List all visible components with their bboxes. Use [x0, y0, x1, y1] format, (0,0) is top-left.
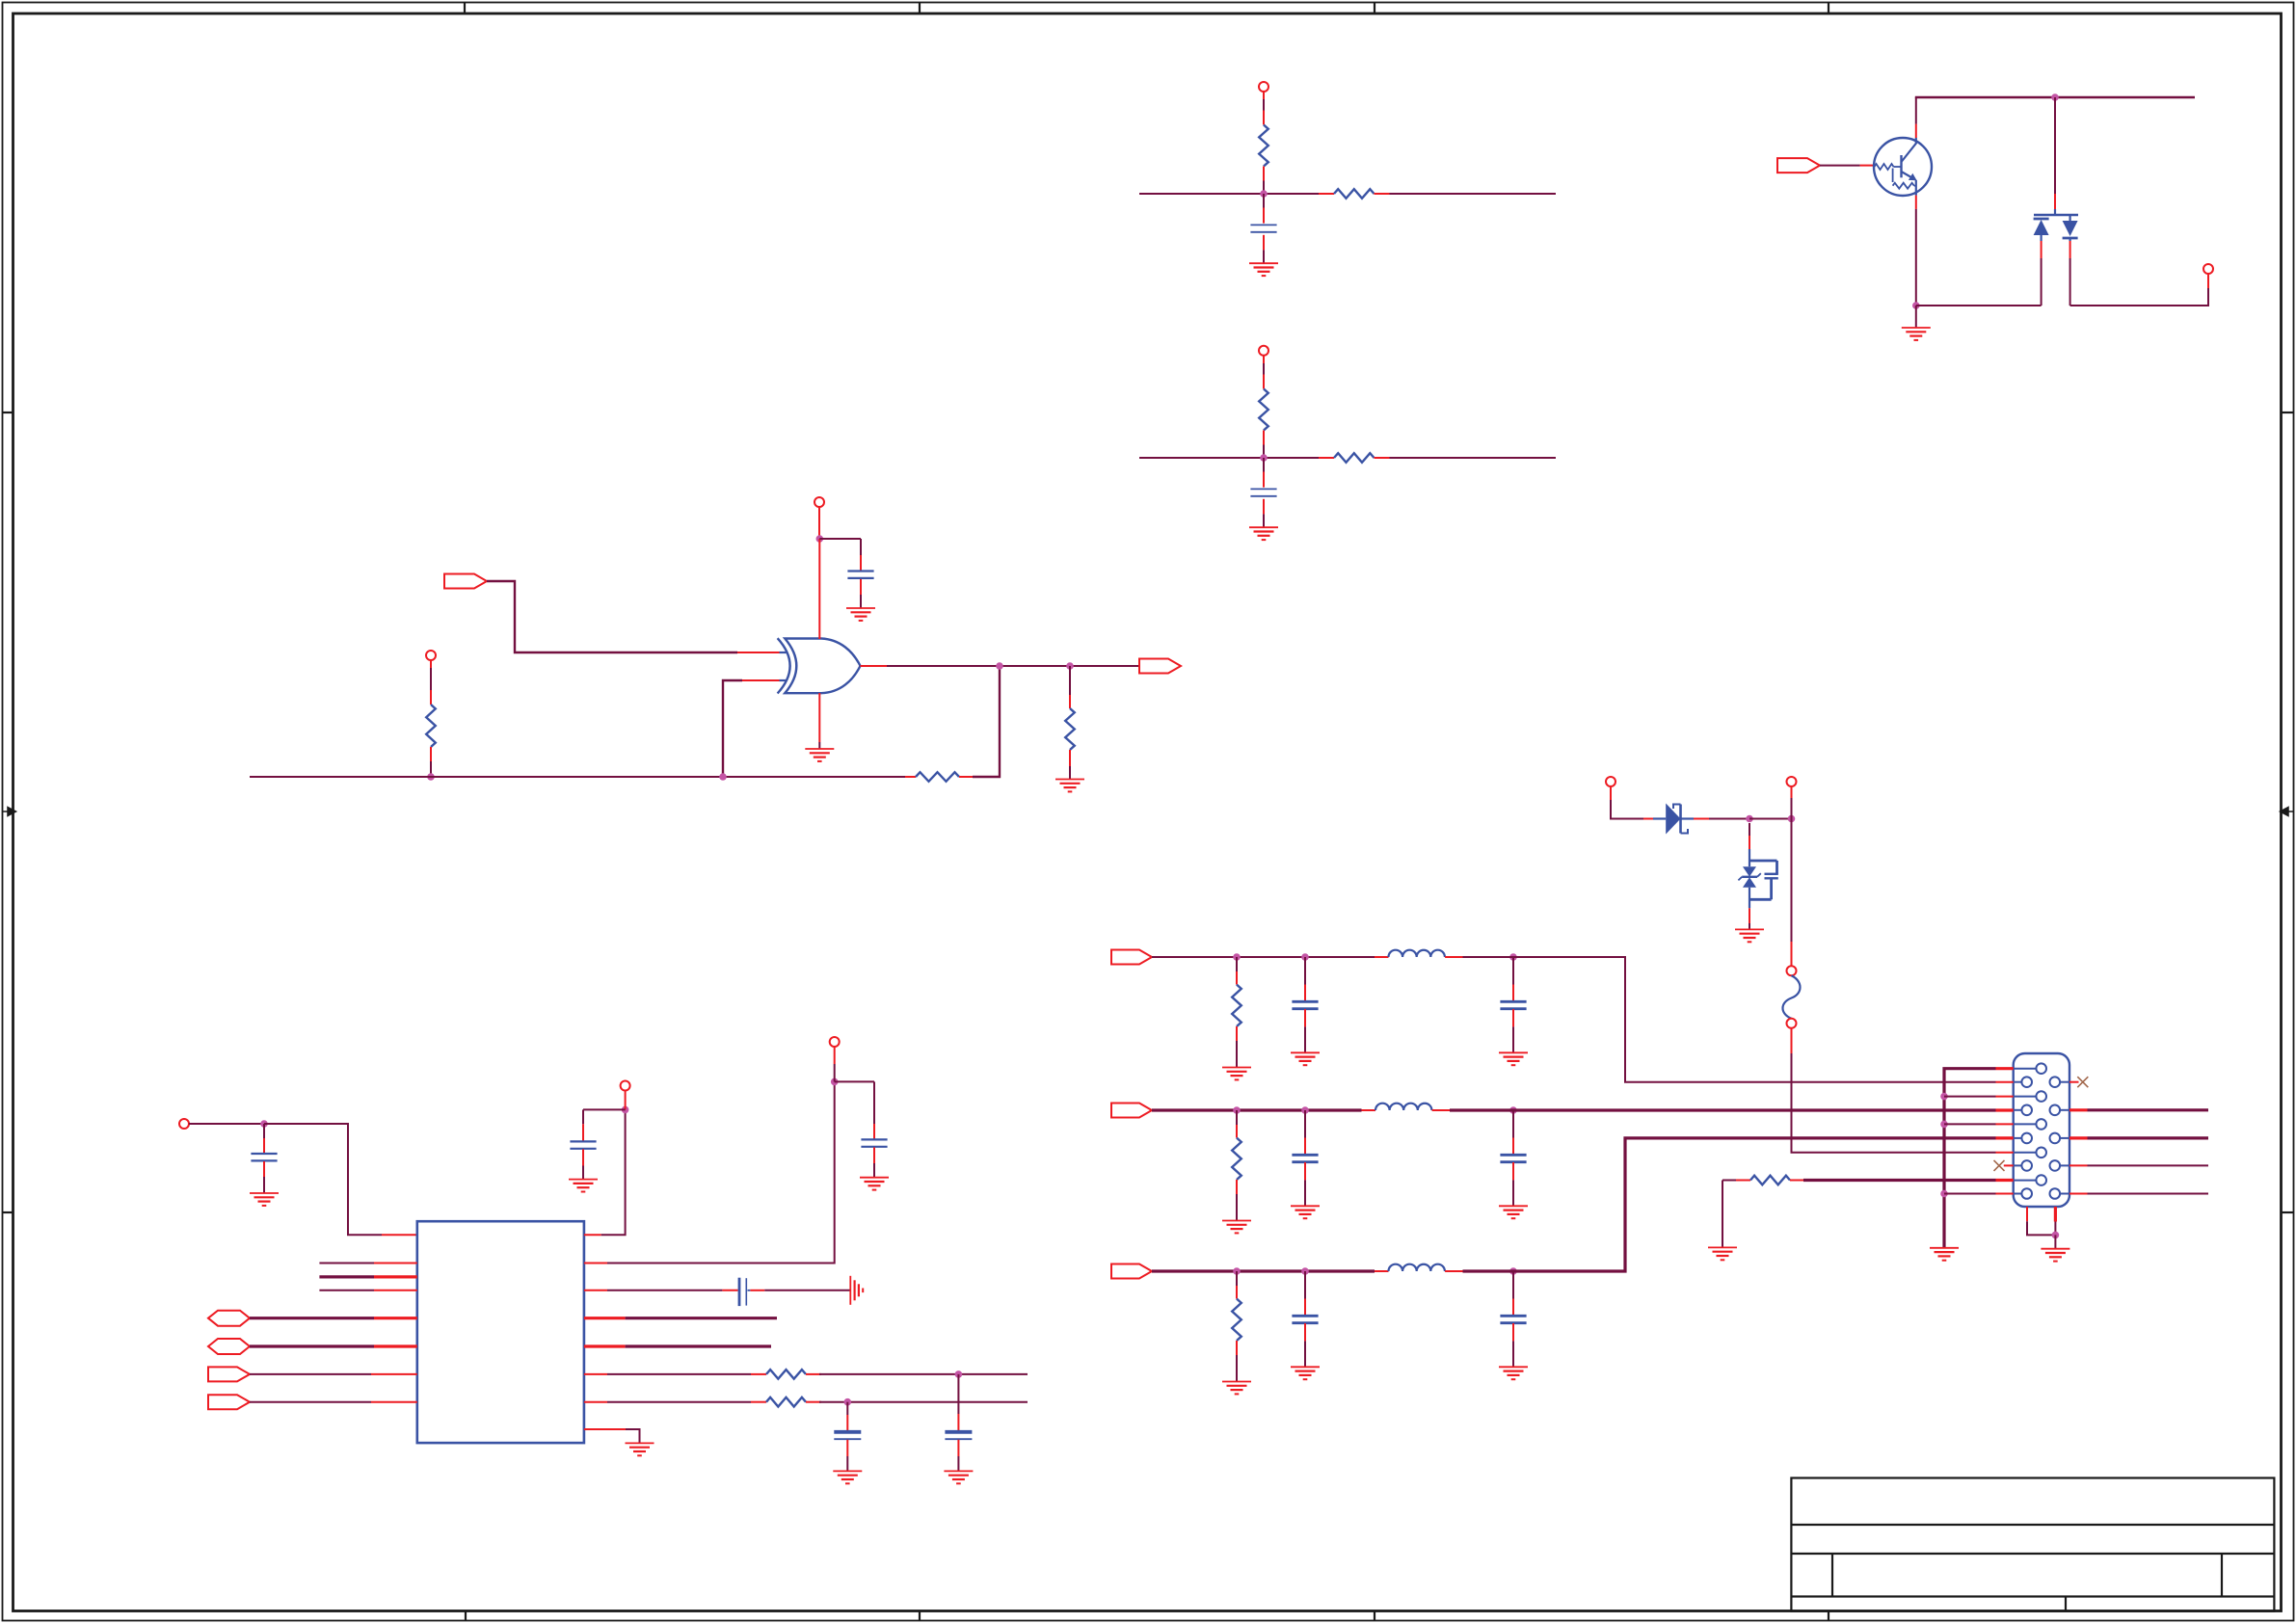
node junction: [719, 773, 727, 781]
port flag row3: [1111, 1264, 1152, 1279]
capacitor C4: [251, 1154, 277, 1160]
pin stub: [1304, 1162, 1306, 1180]
ground: [1735, 929, 1764, 942]
wire: [1236, 957, 1238, 971]
pin stub: [1736, 1180, 1750, 1182]
node junction: [1788, 815, 1796, 823]
pin stub: [1304, 1138, 1306, 1155]
pin stub: [1304, 1009, 1306, 1026]
power port P1: [1259, 82, 1268, 92]
node junction: [955, 1370, 963, 1378]
wire: [1916, 305, 2042, 306]
pin stub: [584, 1234, 601, 1236]
pin stub: [2069, 241, 2071, 258]
wire: [819, 1401, 1028, 1403]
pin stub: [584, 1428, 626, 1430]
pin stub: [1915, 196, 1917, 209]
resistor R9: [766, 1397, 806, 1407]
pin stub: [584, 1401, 607, 1403]
inductor L1: [1389, 950, 1445, 957]
title block: [1791, 1478, 2274, 1611]
wire: [607, 1290, 722, 1291]
wire: [250, 1373, 371, 1375]
wire: [430, 747, 432, 777]
capacitor C3: [847, 572, 873, 578]
pin stub: [2004, 1164, 2014, 1166]
pin stub: [873, 1124, 875, 1139]
wire: [1152, 1269, 1375, 1272]
node junction: [844, 1398, 852, 1406]
pin stub: [584, 1344, 626, 1347]
pin stub: [873, 1147, 875, 1163]
pin stub: [959, 776, 973, 778]
pin stub: [584, 1290, 607, 1291]
wire: [319, 1263, 374, 1264]
pin stub: [1263, 208, 1265, 224]
pin stub: [382, 1234, 417, 1236]
wire: [1304, 1110, 1306, 1138]
pin stub: [584, 1373, 607, 1375]
wire: [1709, 818, 1749, 820]
wire: [1236, 1194, 1238, 1220]
port flag: [208, 1395, 250, 1409]
wire: [607, 1401, 751, 1403]
port P9: [2203, 264, 2213, 274]
power port P2: [1259, 346, 1268, 356]
pin stub: [1996, 1152, 2014, 1154]
pin stub: [1996, 1067, 2014, 1070]
ground: [1291, 1052, 1320, 1065]
resistor R111: [1232, 1138, 1241, 1180]
pin stub: [2054, 1207, 2057, 1222]
wire: [250, 1401, 371, 1403]
dual diode D2: [2034, 209, 2078, 241]
pin stub: [1996, 1096, 2014, 1098]
pin stub: [374, 1317, 417, 1319]
wire: [1263, 445, 1265, 459]
IC U2: [417, 1221, 584, 1443]
wire: [1512, 1271, 1514, 1299]
wire: [1791, 798, 1793, 819]
wire: [957, 1374, 959, 1414]
node junction: [1233, 953, 1241, 961]
pin stub: [1263, 431, 1265, 445]
wire: [1263, 92, 1265, 111]
node junction: [1260, 190, 1268, 198]
port P4: [179, 1119, 189, 1129]
node junction: [1509, 953, 1517, 961]
node junction: [2051, 93, 2059, 101]
wire: [1512, 1180, 1514, 1206]
connector J1 (DB15): [2014, 1053, 2069, 1207]
wire: [1915, 97, 1917, 124]
wire: [582, 1109, 584, 1124]
diode D1: [1653, 804, 1694, 835]
pin stub: [1915, 124, 1917, 138]
wire: [2054, 1235, 2056, 1248]
wire: [601, 1109, 626, 1235]
wire: [250, 776, 905, 778]
wire: [1749, 823, 1750, 836]
ground: [1499, 1367, 1528, 1379]
pin stub: [1236, 1180, 1238, 1194]
resistor R1: [1259, 125, 1268, 167]
pin stub: [1996, 1136, 2014, 1139]
transistor Q1: [1874, 138, 1932, 196]
pin stub: [722, 1290, 737, 1291]
resistor R4: [1334, 453, 1375, 463]
wire: [1749, 818, 1792, 820]
wire: [819, 1373, 1028, 1375]
capacitor C16: [1749, 861, 1778, 899]
wire: [2088, 1193, 2209, 1195]
wire: [1263, 250, 1265, 262]
pin stub: [371, 1401, 417, 1403]
wire: [1792, 1053, 1996, 1153]
ground: [1291, 1367, 1320, 1379]
resistor R8: [766, 1370, 806, 1379]
port flag row1: [1111, 950, 1152, 965]
XOR gate U1: [778, 638, 861, 693]
pin stub: [1263, 235, 1265, 251]
pin stub: [1512, 1138, 1514, 1155]
ground: [1222, 1382, 1251, 1395]
wire: [2041, 258, 2042, 306]
pin stub: [1512, 985, 1514, 1001]
pin stub: [1236, 1341, 1238, 1355]
wire: [1304, 957, 1306, 985]
TVS diode Z1: [1738, 849, 1760, 908]
wire: [873, 1081, 875, 1124]
wire: [1512, 1026, 1514, 1052]
pin stub: [263, 1161, 265, 1177]
node junction: [2052, 1232, 2060, 1239]
wire: [2088, 1108, 2209, 1111]
ground: [1499, 1206, 1528, 1218]
pin stub: [1445, 956, 1462, 958]
hex port: [208, 1339, 250, 1354]
wire: [887, 665, 1139, 667]
wire: [973, 666, 1000, 777]
pin stub: [860, 555, 862, 571]
pin stub: [584, 1263, 607, 1264]
wire: [1069, 766, 1071, 779]
wire: [1236, 1110, 1238, 1125]
wire: [1390, 457, 1557, 459]
pin stub: [582, 1149, 584, 1165]
ground: [1708, 1247, 1737, 1260]
pin stub: [1790, 1180, 1803, 1182]
wire: [487, 581, 737, 652]
pin stub: [1749, 836, 1750, 849]
pin stub: [584, 1317, 626, 1319]
wire: [1611, 786, 1643, 819]
wire: [1749, 908, 1750, 929]
pin stub: [1319, 457, 1334, 459]
GND pin wire: [818, 693, 820, 749]
wire: [2054, 97, 2056, 194]
wire: [1512, 957, 1514, 985]
wire: [607, 1373, 751, 1375]
wire: [2027, 1221, 2055, 1235]
port flag: [208, 1367, 250, 1381]
VCC pin wire: [818, 539, 820, 639]
wire: [1152, 956, 1375, 958]
wire: [2054, 1222, 2056, 1236]
pin stub: [1375, 457, 1390, 459]
wire: [1463, 1138, 1996, 1271]
node junction: [831, 1078, 839, 1086]
pin stub: [1512, 1009, 1514, 1026]
wire: [607, 1081, 835, 1263]
wire: [2088, 1136, 2209, 1139]
wire: [626, 1344, 771, 1347]
capacitor C9: [834, 1432, 861, 1439]
ground: [833, 1471, 862, 1483]
ground: [1499, 1052, 1528, 1065]
pin stub: [846, 1415, 848, 1431]
wire: [1304, 1180, 1306, 1206]
pin stub: [1069, 750, 1071, 766]
wire: [1263, 181, 1265, 195]
capacitor C2: [1250, 489, 1276, 495]
wire: [263, 1177, 265, 1193]
pin stub: [1236, 1026, 1238, 1041]
wire: [957, 1440, 959, 1472]
pin stub: [751, 1401, 766, 1403]
pin stub: [2054, 194, 2056, 209]
pin stub: [2069, 1081, 2079, 1083]
pin stub: [1069, 695, 1071, 708]
wire: [1304, 1341, 1306, 1367]
pin stub: [1304, 1299, 1306, 1316]
pin stub: [1996, 1123, 2014, 1125]
node junction: [1301, 953, 1309, 961]
capacitor C6: [861, 1139, 887, 1146]
ground: [846, 608, 875, 621]
node junction: [427, 773, 435, 781]
pin stub: [1304, 1323, 1306, 1341]
wire: [723, 680, 742, 777]
no-connect X: [1994, 1160, 2005, 1171]
resistor R5: [426, 705, 436, 747]
pin stub: [2069, 1136, 2088, 1139]
no-connect X: [2077, 1077, 2088, 1087]
wire: [2070, 288, 2208, 306]
pin stub: [751, 1373, 766, 1375]
wire: [2069, 258, 2071, 306]
wire: [189, 1123, 264, 1125]
ground: [860, 1178, 889, 1190]
wire: [1069, 666, 1071, 695]
ground: [2041, 1249, 2069, 1262]
pin stub: [861, 665, 888, 667]
wire: [263, 1124, 265, 1138]
wire: [250, 1344, 374, 1347]
pin stub: [1263, 167, 1265, 181]
ground: [250, 1193, 279, 1206]
capacitor C1: [1250, 225, 1276, 231]
pin stub: [2069, 1193, 2088, 1195]
resistor R13: [1750, 1176, 1790, 1185]
capacitor C2a: [1292, 1155, 1318, 1161]
hex port: [208, 1311, 250, 1326]
port P8: [1787, 777, 1797, 786]
port flag input: [444, 574, 487, 589]
capacitor C1b: [1500, 1001, 1526, 1008]
pin stub: [1860, 165, 1874, 167]
pin stub: [1643, 818, 1653, 820]
ground: [1291, 1206, 1320, 1218]
pin stub: [2069, 1164, 2088, 1166]
node junction: [622, 1106, 629, 1114]
wire: [1944, 1123, 1996, 1125]
wire: [1450, 1108, 1996, 1111]
wire: [1263, 458, 1265, 472]
wire: [626, 1429, 640, 1443]
pin stub: [1996, 1108, 2014, 1111]
node junction: [1940, 1121, 1948, 1129]
wire: [1944, 1069, 1996, 1248]
node junction: [1912, 302, 1920, 309]
pin stub: [1263, 499, 1265, 515]
wire: [430, 660, 432, 690]
power port P10: [426, 651, 436, 660]
resistor R3: [1259, 389, 1268, 431]
node junction: [1940, 1190, 1948, 1198]
node junction: [816, 535, 824, 543]
pin stub: [1375, 193, 1390, 195]
wire: [1304, 1026, 1306, 1052]
wire: [2088, 1164, 2209, 1166]
pin stub: [748, 1290, 765, 1291]
wire: [319, 1290, 374, 1291]
inductor L3: [1389, 1264, 1445, 1271]
wire: [1915, 209, 1917, 306]
wire: [860, 539, 862, 555]
wire: [764, 1290, 850, 1291]
ground: [1055, 780, 1084, 792]
pin stub: [374, 1263, 417, 1264]
ground: [569, 1180, 598, 1192]
wire: [835, 1080, 874, 1082]
pin stub: [1791, 1028, 1793, 1053]
pin stub: [1996, 1081, 2014, 1083]
fuse F1: [1783, 966, 1801, 1028]
capacitor C7: [739, 1278, 746, 1306]
ground: [1249, 263, 1278, 276]
ground: [805, 749, 834, 761]
wire: [1152, 1108, 1362, 1111]
node junction: [260, 1120, 268, 1128]
wire: [1236, 1041, 1238, 1067]
pin stub: [1512, 1323, 1514, 1341]
power port P6: [830, 1037, 840, 1047]
node junction: [1301, 1106, 1309, 1114]
pin stub: [1375, 1270, 1389, 1272]
wire: [625, 1091, 627, 1110]
pin stub: [905, 776, 916, 778]
pin stub: [430, 690, 432, 705]
wire: [1512, 1341, 1514, 1367]
ground: [1902, 328, 1931, 340]
pin stub: [1362, 1109, 1376, 1111]
wire: [1263, 514, 1265, 526]
wire: [1722, 1181, 1736, 1248]
pin stub: [1791, 942, 1793, 966]
pin stub: [374, 1290, 417, 1291]
wire: [1304, 1271, 1306, 1299]
node junction: [1233, 1267, 1241, 1275]
node junction: [1233, 1106, 1241, 1114]
wire: [1390, 193, 1557, 195]
port P7: [1606, 777, 1615, 786]
wire: [1944, 1096, 1996, 1098]
pin stub: [1263, 472, 1265, 488]
resistor R6: [916, 772, 959, 782]
ground: [1222, 1068, 1251, 1080]
node junction: [1066, 662, 1074, 670]
resistor R110: [1232, 985, 1241, 1026]
pin stub: [2069, 1108, 2088, 1111]
pin stub: [806, 1401, 821, 1403]
wire: [860, 595, 862, 608]
wire: [1139, 457, 1319, 459]
pin stub: [1512, 1299, 1514, 1316]
wire: [264, 1124, 382, 1235]
pin stub: [1304, 985, 1306, 1001]
pin stub: [1263, 375, 1265, 389]
wire: [1236, 1271, 1238, 1286]
wire: [819, 538, 861, 540]
wire: [319, 1275, 374, 1278]
wire: [846, 1440, 848, 1472]
ground: [850, 1276, 863, 1305]
pin stub: [374, 1344, 417, 1347]
capacitor C3a: [1292, 1316, 1318, 1322]
wire: [1915, 306, 1917, 328]
ground: [944, 1471, 973, 1483]
wire: [250, 1317, 374, 1319]
wire: [1512, 1110, 1514, 1138]
pin stub: [582, 1124, 584, 1141]
wire: [1139, 193, 1319, 195]
pin stub: [1375, 956, 1389, 958]
port flag output: [1139, 659, 1181, 674]
capacitor C8: [945, 1432, 972, 1439]
pin stub: [1432, 1109, 1450, 1111]
port flag: [1777, 158, 1820, 173]
node junction: [1260, 454, 1268, 462]
wire: [846, 1402, 848, 1415]
capacitor C3b: [1500, 1316, 1526, 1322]
resistor R2: [1334, 189, 1375, 199]
ground: [1930, 1248, 1959, 1261]
wire: [1803, 1179, 1996, 1182]
wire: [818, 507, 820, 539]
pin stub: [1512, 1162, 1514, 1180]
wire: [834, 1047, 836, 1081]
pin stub: [957, 1414, 959, 1431]
wire: [1463, 957, 1996, 1082]
node junction: [1940, 1093, 1948, 1101]
pin stub: [1996, 1179, 2014, 1182]
pin stub: [1263, 111, 1265, 125]
capacitor C5: [570, 1141, 596, 1148]
wire: [1944, 1193, 1996, 1195]
ground: [1222, 1221, 1251, 1234]
wire: [582, 1166, 584, 1180]
